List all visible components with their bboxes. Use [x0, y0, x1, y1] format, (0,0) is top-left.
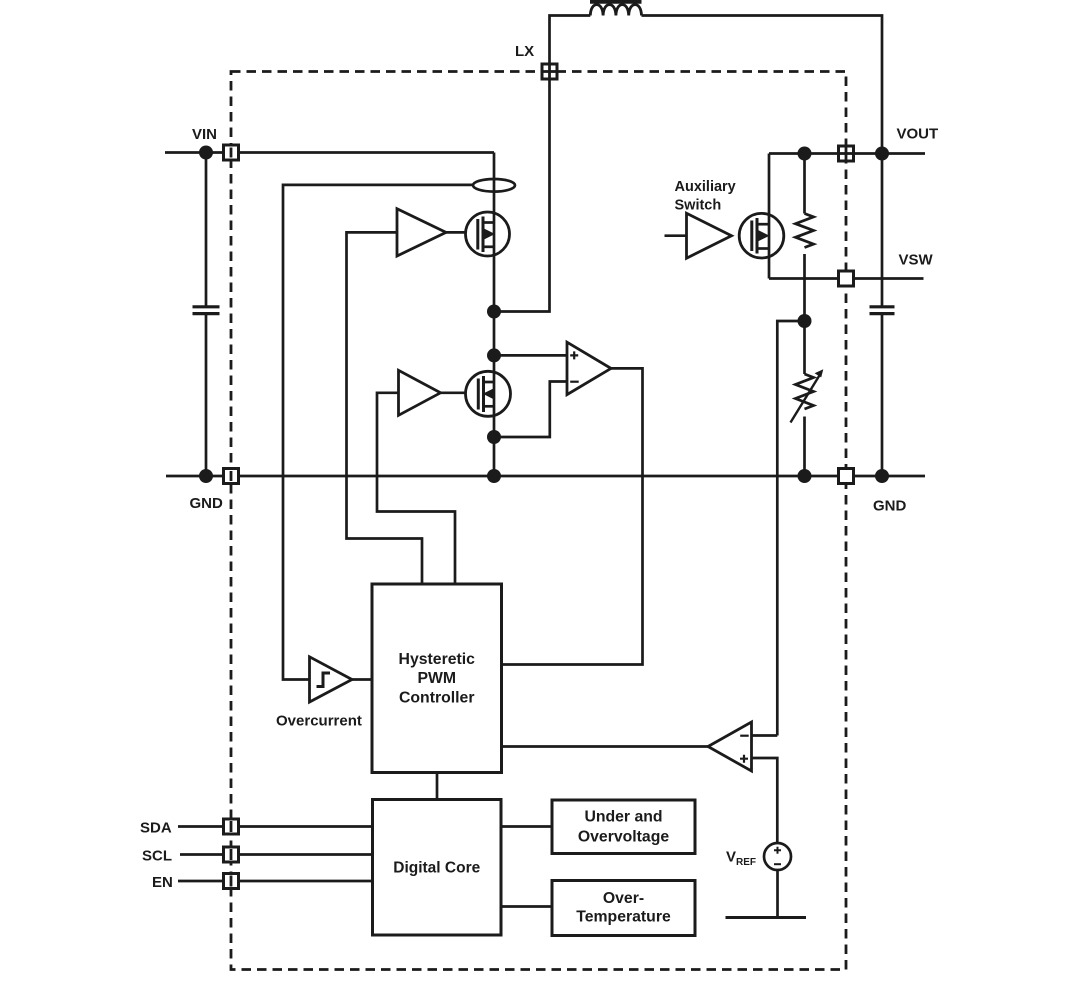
- svg-text:Overvoltage: Overvoltage: [578, 828, 670, 845]
- wire U2 output to M2 gate: [441, 391, 478, 394]
- wire M2 source down to GND: [493, 415, 496, 476]
- svg-text:Under and: Under and: [584, 809, 662, 826]
- comparator A2 plus sign: [740, 755, 748, 763]
- wire VREF to ground: [776, 870, 779, 918]
- wire overcurrent output: [352, 678, 372, 681]
- pin VOUT: [839, 146, 854, 161]
- svg-text:Switch: Switch: [675, 198, 722, 214]
- svg-text:GND: GND: [190, 495, 224, 512]
- svg-text:Hysteretic: Hysteretic: [399, 651, 476, 668]
- wire U2 input from controller: [377, 393, 455, 584]
- pin VSW: [839, 271, 854, 286]
- svg-text:GND: GND: [873, 498, 907, 515]
- wire controller to digital core: [436, 773, 439, 800]
- overcurrent step symbol: [317, 673, 331, 687]
- wire A2 output to controller: [502, 745, 709, 748]
- wire to comparator plus input: [494, 354, 567, 357]
- wire GND rail: [166, 475, 925, 478]
- svg-text:Over-: Over-: [603, 890, 644, 907]
- ground bar: [726, 916, 807, 919]
- wire SDA: [178, 825, 373, 828]
- svg-text:Temperature: Temperature: [576, 908, 671, 925]
- comparator A2 feedback: [708, 722, 752, 771]
- capacitor C1 top lead: [205, 153, 208, 306]
- inductor L1 top bar: [590, 0, 642, 4]
- svg-text:EN: EN: [152, 874, 173, 891]
- pin VIN: [224, 145, 239, 160]
- wire U3 input stub: [665, 234, 687, 237]
- resistor R2 variable: [796, 374, 814, 409]
- wire A2 plus input from VREF: [752, 758, 778, 843]
- pin GND right: [839, 469, 854, 484]
- svg-text:LX: LX: [515, 43, 534, 60]
- block Under and Overvoltage: [552, 800, 695, 854]
- node junction dot feedback: [798, 314, 812, 328]
- svg-text:SCL: SCL: [142, 848, 172, 865]
- wire M1 to M2 main vertical: [493, 255, 496, 372]
- pin GND left: [224, 469, 239, 484]
- wire U1 input from controller: [347, 232, 423, 584]
- svg-text:Controller: Controller: [399, 689, 474, 706]
- svg-text:Digital Core: Digital Core: [393, 859, 480, 876]
- IC boundary dashed box: [231, 72, 846, 970]
- block Hysteretic PWM Controller: [372, 584, 502, 773]
- node junction dot GND center: [487, 469, 501, 483]
- current sense ellipse: [473, 179, 515, 192]
- voltage source VREF: [764, 843, 791, 870]
- pin LX: [542, 64, 557, 79]
- wire current sense to overcurrent comparator: [283, 185, 472, 680]
- wire U1 output to M1 gate: [446, 231, 477, 234]
- svg-text:Auxiliary: Auxiliary: [675, 179, 736, 195]
- node junction dot M2 source: [487, 430, 501, 444]
- capacitor C1: [193, 305, 220, 308]
- capacitor C1 bottom lead: [205, 315, 208, 477]
- wire feedback to comparator A2: [777, 321, 804, 736]
- wire VIN feed down to high-side FET: [493, 153, 496, 214]
- svg-text:VIN: VIN: [192, 126, 217, 143]
- wire VOUT rail: [769, 152, 925, 155]
- node junction dot VOUT-R1: [798, 147, 812, 161]
- block Over-Temperature: [552, 881, 695, 936]
- overcurrent comparator triangle: [310, 657, 353, 702]
- driver U2 triangle: [399, 370, 441, 415]
- wire inductor right to VOUT node: [642, 16, 883, 154]
- comparator A1 plus sign: [570, 351, 578, 359]
- capacitor C2 bottom lead: [881, 315, 884, 477]
- wire VSW rail: [769, 277, 924, 280]
- wire to comparator minus input: [494, 382, 567, 438]
- pin SCL: [224, 847, 239, 862]
- pin SDA: [224, 819, 239, 834]
- capacitor C2: [870, 305, 895, 308]
- resistor R2 variable top lead: [803, 321, 806, 374]
- wire SCL: [180, 853, 373, 856]
- resistor R2 arrow: [791, 375, 821, 423]
- transistor M3 auxiliary switch: [739, 213, 784, 258]
- node junction dot VOUT right: [875, 147, 889, 161]
- driver U1 triangle: [397, 209, 446, 256]
- capacitor C2 top lead: [881, 154, 884, 306]
- svg-text:VOUT: VOUT: [897, 126, 939, 143]
- resistor R1 bottom lead: [803, 254, 806, 321]
- svg-text:VSW: VSW: [899, 252, 934, 269]
- node junction dot LX: [487, 305, 501, 319]
- aux driver U3 triangle: [687, 213, 732, 258]
- resistor R1: [796, 214, 814, 248]
- transistor M1 high-side: [466, 212, 510, 256]
- wire digital core to OT block: [501, 905, 552, 908]
- wire A2 minus input: [752, 734, 778, 737]
- svg-text:PWM: PWM: [417, 670, 456, 687]
- comparator A1: [567, 342, 611, 394]
- comparator A1 minus sign: [570, 381, 579, 383]
- resistor R1 top lead: [803, 154, 806, 214]
- svg-text:SDA: SDA: [140, 820, 172, 837]
- block Digital Core: [373, 800, 502, 936]
- node junction dot VIN: [199, 146, 213, 160]
- wire comparator A1 output to controller: [502, 368, 643, 664]
- comparator A2 minus sign: [740, 735, 749, 737]
- svg-text:Overcurrent: Overcurrent: [276, 713, 362, 730]
- wire VOUT to aux switch drain: [768, 154, 771, 216]
- node junction dot R2 bottom: [798, 469, 812, 483]
- resistor R2 bottom lead: [803, 417, 806, 477]
- pin EN: [224, 874, 239, 889]
- node junction dot M2 drain sense: [487, 348, 501, 362]
- inductor L1: [590, 5, 641, 16]
- node junction dot GND right: [875, 469, 889, 483]
- wire VIN rail: [165, 151, 494, 154]
- wire digital core to UV block: [501, 825, 552, 828]
- node junction dot GND left: [199, 469, 213, 483]
- svg-text:VREF: VREF: [726, 849, 756, 869]
- wire LX to inductor left: [494, 16, 590, 312]
- transistor M2 low-side: [466, 371, 511, 416]
- wire EN: [178, 880, 373, 883]
- wire aux switch source to VSW: [768, 257, 771, 279]
